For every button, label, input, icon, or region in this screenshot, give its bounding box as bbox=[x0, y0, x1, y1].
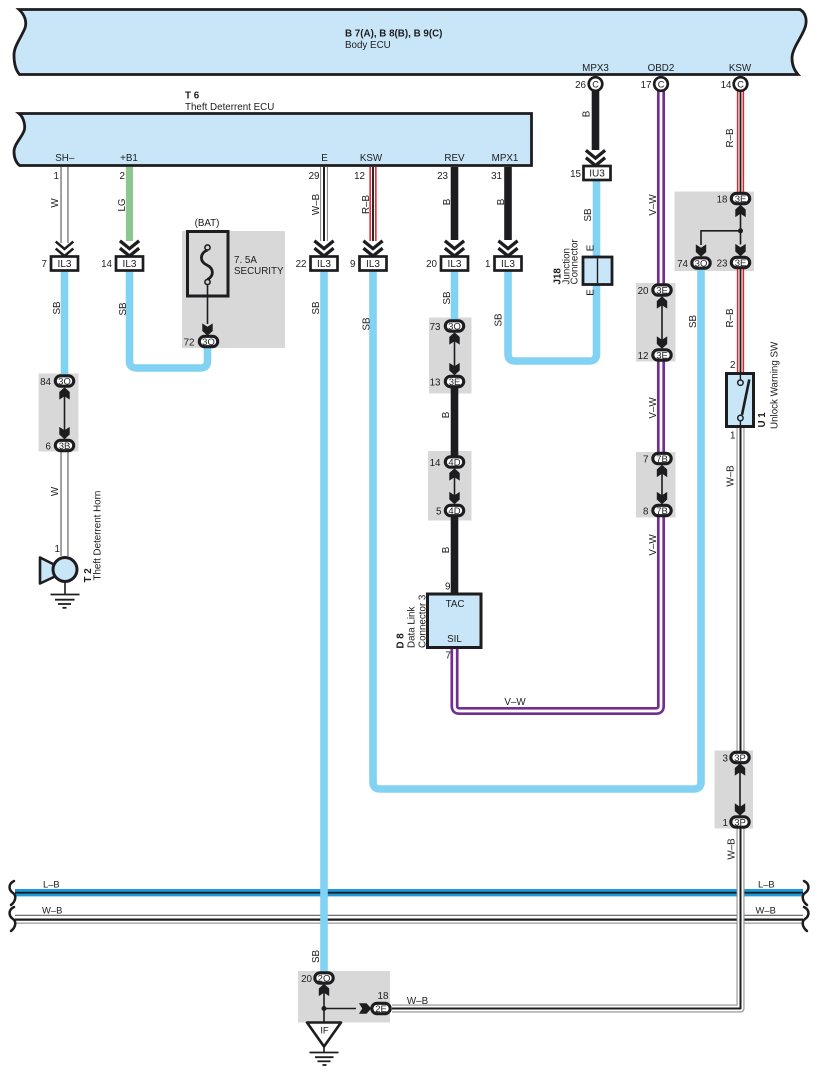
svg-text:1: 1 bbox=[54, 171, 59, 182]
connector 72 3Q bbox=[184, 336, 218, 348]
svg-text:SB: SB bbox=[442, 291, 453, 305]
svg-text:73: 73 bbox=[430, 322, 441, 333]
connector pair 20 3E / 12 3E with link bbox=[638, 285, 672, 362]
wire W-B from T6 E pin 29 bbox=[309, 167, 334, 256]
svg-text:3E: 3E bbox=[656, 285, 668, 296]
fuse 7.5A SECURITY (BAT) bbox=[188, 218, 285, 336]
svg-text:3Q: 3Q bbox=[58, 376, 71, 387]
svg-text:V–W: V–W bbox=[504, 697, 526, 708]
svg-text:20: 20 bbox=[638, 286, 649, 297]
svg-text:L–B: L–B bbox=[43, 879, 60, 890]
connector row: IL3 pin 7 bbox=[42, 257, 78, 271]
svg-text:SB: SB bbox=[362, 317, 373, 331]
C connector circle MPX3 pin 26 bbox=[575, 77, 602, 91]
svg-text:W–B: W–B bbox=[311, 193, 322, 215]
svg-text:3Q: 3Q bbox=[448, 321, 461, 332]
svg-text:W: W bbox=[50, 198, 61, 208]
svg-text:V–W: V–W bbox=[648, 534, 659, 556]
wire V-W from 12 3E to 7 7B bbox=[648, 360, 661, 453]
svg-text:1: 1 bbox=[730, 431, 735, 442]
svg-text:8: 8 bbox=[643, 507, 649, 518]
svg-text:18: 18 bbox=[717, 195, 728, 206]
svg-text:IF: IF bbox=[320, 1025, 329, 1036]
connector row: IL3 pin 20 bbox=[426, 257, 468, 271]
node junction dot bbox=[322, 1006, 327, 1011]
connector 18 3E with junction branch to 74 3Q and 23 3E bbox=[677, 193, 750, 270]
svg-text:4D: 4D bbox=[448, 457, 460, 468]
ground IF triangle bbox=[307, 1023, 341, 1053]
svg-text:KSW: KSW bbox=[360, 153, 383, 164]
svg-text:B: B bbox=[442, 198, 453, 205]
wire R-B from Body ECU KSW pin 14 to 18 3E bbox=[725, 91, 741, 193]
gray service box: connectors 20 3E / 12 3E bbox=[636, 283, 676, 362]
svg-text:22: 22 bbox=[296, 259, 307, 270]
svg-text:26: 26 bbox=[575, 80, 586, 91]
svg-text:23: 23 bbox=[437, 171, 448, 182]
wire B from 5 4D to D8 pin 9 bbox=[451, 515, 459, 595]
svg-text:1: 1 bbox=[55, 544, 60, 555]
data link connector D8 bbox=[396, 594, 482, 649]
svg-text:W–B: W–B bbox=[727, 838, 738, 860]
brace right of L-B bus bbox=[803, 881, 809, 905]
C connector circle KSW pin 14 bbox=[721, 77, 748, 91]
svg-text:OBD2: OBD2 bbox=[648, 63, 675, 74]
svg-text:7: 7 bbox=[42, 259, 47, 270]
svg-text:1: 1 bbox=[723, 818, 728, 829]
svg-text:SB: SB bbox=[311, 950, 322, 964]
connector row: IL3 pin 14 bbox=[101, 257, 143, 271]
wire B from 13 3E to 14 4D bbox=[451, 386, 459, 457]
wire branch to 18 2E bbox=[324, 1008, 356, 1010]
connector pair 3 3P / 1 3P with link bbox=[723, 752, 750, 829]
gray service box: connectors 18 3E / 74 3Q / 23 3E bbox=[675, 192, 755, 272]
ground symbol bbox=[310, 1053, 339, 1066]
svg-text:SIL: SIL bbox=[447, 634, 462, 645]
gray service box: connectors 3 3P / 1 3P bbox=[715, 751, 754, 829]
svg-text:3E: 3E bbox=[735, 194, 747, 205]
ECU T6 Theft Deterrent ECU band bbox=[14, 114, 532, 166]
svg-text:Body ECU: Body ECU bbox=[345, 40, 391, 51]
connector row: IL3 pin 22 bbox=[296, 257, 338, 271]
svg-text:SB: SB bbox=[494, 313, 505, 327]
svg-text:IU3: IU3 bbox=[589, 169, 605, 180]
svg-text:W–B: W–B bbox=[42, 905, 62, 916]
svg-text:14: 14 bbox=[721, 80, 732, 91]
brace right of W-B bus bbox=[803, 907, 809, 931]
svg-text:E: E bbox=[586, 244, 597, 251]
svg-text:KSW: KSW bbox=[729, 63, 752, 74]
ECU B7/B8/B9 Body ECU band bbox=[14, 10, 806, 75]
svg-text:V–W: V–W bbox=[648, 397, 659, 419]
svg-text:(BAT): (BAT) bbox=[195, 218, 220, 229]
svg-text:SB: SB bbox=[311, 301, 322, 315]
wire LG from T6 +B1 pin 2 bbox=[117, 167, 139, 256]
connector pair 73 3Q / 13 3E with link bbox=[430, 321, 464, 389]
svg-text:W–B: W–B bbox=[726, 465, 737, 487]
connector row: IL3 pin 1 bbox=[485, 257, 521, 271]
svg-text:2E: 2E bbox=[375, 1004, 387, 1015]
svg-text:R–B: R–B bbox=[725, 128, 736, 148]
wire W-B from U1 pin 1 to 3 3P bbox=[726, 427, 741, 752]
svg-text:4D: 4D bbox=[448, 506, 460, 517]
gray service box: theft deterrent horn connectors 84 3Q / 6 3B bbox=[39, 374, 79, 452]
wire SB from IU3 through J18 down and left to MPX1 IL3 bbox=[508, 180, 597, 361]
svg-text:7: 7 bbox=[446, 651, 451, 662]
svg-text:1: 1 bbox=[485, 259, 490, 270]
node junction dot bbox=[738, 228, 743, 233]
svg-text:7B: 7B bbox=[656, 506, 668, 517]
svg-text:MPX3: MPX3 bbox=[582, 63, 609, 74]
svg-text:31: 31 bbox=[491, 171, 502, 182]
wire R-B from 23 3E to U1 pin 2 bbox=[725, 268, 741, 373]
svg-text:V–W: V–W bbox=[648, 194, 659, 216]
wire V-W from 8 7B down and left to D8 SIL pin 7 bbox=[446, 516, 661, 711]
svg-text:72: 72 bbox=[184, 338, 195, 349]
svg-text:B 7(A), B 8(B), B 9(C): B 7(A), B 8(B), B 9(C) bbox=[345, 29, 442, 40]
gray service box: connectors 14 4D / 5 4D bbox=[428, 451, 472, 521]
svg-text:SB: SB bbox=[688, 315, 699, 329]
svg-text:7B: 7B bbox=[656, 454, 668, 465]
bus L-B bbox=[15, 879, 803, 893]
connector pair 84 3Q / 6 3B with link bbox=[40, 376, 74, 453]
svg-text:SB: SB bbox=[118, 302, 129, 316]
svg-text:2: 2 bbox=[120, 171, 125, 182]
svg-text:+B1: +B1 bbox=[120, 153, 138, 164]
svg-text:29: 29 bbox=[309, 171, 320, 182]
gray service box: connectors 73 3Q / 13 3E bbox=[429, 318, 472, 394]
svg-text:R–B: R–B bbox=[725, 308, 736, 328]
wire branch to 74 3Q bbox=[701, 231, 741, 245]
wire V-W from Body ECU OBD2 pin 17 to 20 3E bbox=[648, 91, 661, 285]
svg-text:84: 84 bbox=[40, 377, 51, 388]
horn T2 Theft Deterrent Horn bbox=[40, 491, 104, 595]
svg-text:B: B bbox=[441, 546, 452, 553]
connector pair 14 4D / 5 4D with link bbox=[430, 457, 464, 518]
svg-text:Unlock Warning SW: Unlock Warning SW bbox=[770, 341, 781, 429]
ground connector 20 2Q with branch to 18 2E bbox=[301, 973, 390, 1023]
svg-text:B: B bbox=[441, 411, 452, 418]
gray service box: BAT fuse block bbox=[182, 231, 285, 348]
svg-text:2Q: 2Q bbox=[318, 973, 331, 984]
svg-text:3Q: 3Q bbox=[695, 258, 708, 269]
svg-text:SB: SB bbox=[583, 208, 594, 222]
svg-text:3E: 3E bbox=[656, 350, 668, 361]
gray service box: connectors 7 7B / 8 7B bbox=[636, 452, 676, 518]
connector row: IL3 pin 9 bbox=[350, 257, 386, 271]
C connector circle OBD2 pin 17 bbox=[641, 77, 668, 91]
svg-text:D 8: D 8 bbox=[396, 633, 407, 649]
svg-text:7: 7 bbox=[643, 455, 648, 466]
svg-text:20: 20 bbox=[301, 974, 312, 985]
junction connector J18 bbox=[553, 239, 613, 296]
wire SB from E IL3 down to ground connector 20 2Q bbox=[320, 271, 328, 973]
svg-text:18: 18 bbox=[378, 991, 389, 1002]
svg-text:7. 5A: 7. 5A bbox=[234, 255, 257, 266]
wire SB from KSW IL3 down around to 74 3Q bbox=[373, 270, 701, 790]
svg-text:9: 9 bbox=[445, 582, 450, 593]
wire R-B from T6 KSW pin 12 bbox=[354, 167, 383, 256]
svg-text:2: 2 bbox=[730, 360, 735, 371]
svg-text:E: E bbox=[321, 153, 328, 164]
svg-text:3: 3 bbox=[723, 754, 729, 765]
svg-text:3E: 3E bbox=[735, 258, 747, 269]
wire W-B from 1 3P down across buses and left to 18 2E bbox=[392, 829, 741, 1009]
wire SB from +B1 IL3 to 72 3Q bbox=[130, 271, 208, 369]
svg-text:12: 12 bbox=[638, 351, 649, 362]
brace left of L-B bus bbox=[10, 881, 16, 905]
svg-text:9: 9 bbox=[350, 259, 355, 270]
svg-text:Data Link: Data Link bbox=[407, 607, 418, 648]
svg-text:12: 12 bbox=[354, 171, 365, 182]
svg-text:E: E bbox=[586, 289, 597, 296]
svg-text:MPX1: MPX1 bbox=[492, 153, 519, 164]
svg-text:L–B: L–B bbox=[758, 879, 775, 890]
connector IU3 pin 15 bbox=[570, 166, 610, 180]
svg-text:SECURITY: SECURITY bbox=[234, 266, 284, 277]
svg-text:13: 13 bbox=[430, 378, 441, 389]
svg-text:Connector 3: Connector 3 bbox=[418, 594, 429, 648]
wire B from T6 REV pin 23 bbox=[437, 167, 464, 256]
svg-text:B: B bbox=[582, 110, 593, 117]
svg-text:B: B bbox=[496, 198, 507, 205]
svg-text:17: 17 bbox=[641, 80, 652, 91]
svg-text:Theft Deterrent Horn: Theft Deterrent Horn bbox=[93, 491, 104, 581]
svg-text:14: 14 bbox=[430, 458, 441, 469]
bus W-B bbox=[15, 905, 803, 924]
svg-text:3P: 3P bbox=[734, 753, 746, 764]
ground at horn bbox=[51, 595, 80, 608]
svg-text:SB: SB bbox=[52, 301, 63, 315]
svg-text:SH–: SH– bbox=[55, 153, 75, 164]
wire B from T6 MPX1 pin 31 bbox=[491, 167, 518, 256]
wire W from T6 SH- pin 1 bbox=[50, 167, 73, 256]
svg-text:REV: REV bbox=[444, 153, 465, 164]
wire SB from REV IL3 to 73 3Q bbox=[451, 271, 459, 323]
svg-text:Connector: Connector bbox=[570, 239, 581, 285]
svg-text:6: 6 bbox=[46, 442, 52, 453]
svg-text:3Q: 3Q bbox=[202, 337, 215, 348]
svg-text:W–B: W–B bbox=[756, 905, 776, 916]
wire SB from SH- IL3 to 84 3Q bbox=[61, 271, 69, 376]
svg-text:W–B: W–B bbox=[407, 996, 429, 1007]
wire W from 6 3B to horn T2 bbox=[50, 452, 65, 556]
svg-text:W: W bbox=[50, 486, 61, 496]
svg-text:R–B: R–B bbox=[361, 195, 372, 215]
svg-text:5: 5 bbox=[436, 507, 442, 518]
svg-text:U 1: U 1 bbox=[757, 412, 768, 428]
svg-text:20: 20 bbox=[426, 259, 437, 270]
switch U1 Unlock Warning SW bbox=[727, 341, 781, 429]
gray service box: ground connectors 20 2Q / 18 2E bbox=[298, 971, 390, 1023]
svg-text:3P: 3P bbox=[734, 817, 746, 828]
svg-text:3E: 3E bbox=[449, 377, 461, 388]
svg-text:T 6: T 6 bbox=[185, 91, 200, 102]
svg-text:74: 74 bbox=[677, 259, 688, 270]
wire B from Body ECU MPX3 pin 26 bbox=[582, 91, 606, 166]
svg-text:3B: 3B bbox=[59, 441, 71, 452]
svg-text:TAC: TAC bbox=[446, 599, 465, 610]
svg-text:15: 15 bbox=[570, 169, 581, 180]
svg-text:LG: LG bbox=[117, 198, 128, 211]
svg-text:Theft Deterrent ECU: Theft Deterrent ECU bbox=[185, 102, 274, 113]
brace left of W-B bus bbox=[10, 907, 16, 931]
svg-text:14: 14 bbox=[101, 259, 112, 270]
svg-text:23: 23 bbox=[717, 259, 728, 270]
connector pair 7 7B / 8 7B with link bbox=[643, 453, 671, 517]
